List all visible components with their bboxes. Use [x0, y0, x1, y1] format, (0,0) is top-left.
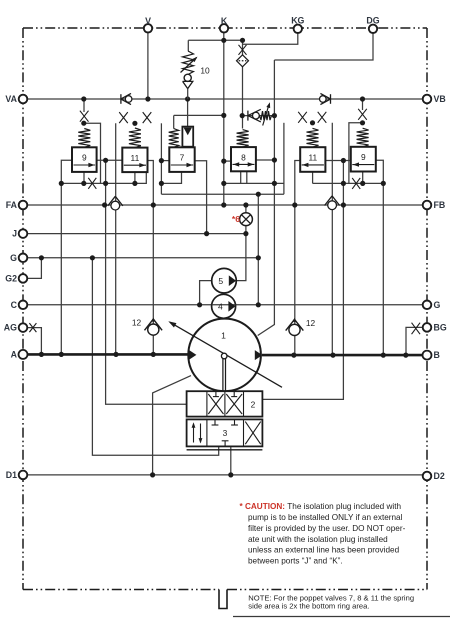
wire valve11R-9R link: [325, 160, 350, 162]
wire valve9L bottom stub: [83, 172, 85, 184]
svg-text:A: A: [11, 349, 18, 359]
svg-text:4: 4: [218, 302, 223, 312]
svg-text:8: 8: [241, 152, 246, 162]
wire crossover line 11L-11R: [161, 193, 284, 195]
svg-text:* CAUTION: The isolation plug: * CAUTION: The isolation plug included w…: [240, 502, 402, 511]
wire drain to control valve: [92, 258, 218, 455]
orifice below valve 9 right: [352, 178, 360, 189]
wire valve11L right frame: [160, 123, 162, 194]
port FB: [423, 201, 432, 210]
svg-text:3: 3: [223, 428, 228, 438]
wire valve7 drain elbow: [161, 172, 181, 183]
svg-text:D1: D1: [6, 470, 17, 480]
wire valve7 spring to K line: [173, 115, 175, 128]
pump shaft: [222, 358, 224, 392]
check valve on VA line: [125, 96, 132, 103]
svg-text:1: 1: [221, 331, 226, 341]
svg-text:between ports “J” and “K”.: between ports “J” and “K”.: [248, 557, 343, 566]
wire valve10 top line: [188, 39, 242, 41]
wire valve11R left frame: [283, 123, 285, 194]
svg-text:5: 5: [218, 276, 223, 286]
port C: [19, 301, 28, 310]
orifice at BG: [412, 323, 421, 335]
check valve on VB line: [320, 96, 327, 103]
wire VA-VB line: [27, 98, 422, 100]
svg-text:G: G: [434, 300, 441, 310]
svg-text:unless an external line has be: unless an external line has been provide…: [248, 546, 400, 555]
svg-text:G: G: [10, 253, 17, 263]
wire isolation plug branch FA-J: [245, 205, 247, 234]
poppet valve 9 left: [80, 111, 89, 122]
svg-text:J: J: [12, 229, 17, 239]
variable displacement arrow: [170, 322, 282, 387]
svg-text:FA: FA: [6, 200, 18, 210]
orifice below valve 9 left: [88, 178, 96, 189]
svg-text:FB: FB: [434, 200, 446, 210]
svg-text:KG: KG: [291, 16, 304, 26]
wire DG drop elbow: [274, 33, 373, 60]
gerotor 5: [212, 268, 237, 293]
wire control box drain stub to D line: [230, 446, 232, 475]
poppet valve 11 left: [119, 112, 128, 123]
port VA: [19, 95, 28, 104]
svg-text:*6: *6: [232, 214, 240, 224]
poppet valve 11 right: [298, 112, 307, 123]
enclosure dash-dot border: [23, 27, 427, 29]
wire servo right feed: [262, 161, 343, 400]
port G2: [19, 274, 28, 283]
bypass check valve with spring: [247, 111, 249, 121]
pump inlet arrow: [189, 350, 197, 360]
orifice at AG: [29, 323, 36, 332]
junction dots: [81, 96, 86, 101]
svg-text:DG: DG: [366, 16, 379, 26]
isolation plug *6: [240, 213, 253, 226]
port D2: [423, 472, 432, 481]
wire valve9R pilot side branch: [349, 123, 363, 184]
svg-text:pump is to be installed ONLY i: pump is to be installed ONLY if an exter…: [248, 513, 403, 522]
wire gerotor5 right elbow to J: [236, 234, 246, 281]
svg-text:B: B: [434, 350, 440, 360]
svg-text:AG: AG: [4, 323, 17, 333]
wire D1-D2 line: [27, 474, 422, 476]
port FA: [19, 201, 28, 210]
wire valve7 left stub: [161, 160, 169, 162]
svg-text:ate unit with the isolation pl: ate unit with the isolation plug install…: [248, 535, 388, 544]
svg-text:side area is 2x the bottom rin: side area is 2x the bottom ring area.: [248, 602, 369, 611]
svg-text:V: V: [145, 16, 151, 26]
port D1: [19, 471, 28, 480]
filter 6: [237, 55, 249, 67]
wire swash link and case drain to D1: [153, 376, 191, 475]
svg-text:9: 9: [82, 153, 87, 163]
svg-text:K: K: [221, 16, 228, 26]
wire valve7 pilot drop: [187, 99, 189, 128]
wire valve9L-11L link: [97, 159, 123, 161]
wire drain bus right segment: [313, 182, 384, 184]
check valve 12 right: [289, 324, 300, 335]
svg-text:C: C: [11, 300, 18, 310]
svg-text:2: 2: [251, 399, 256, 409]
wire J line: [27, 233, 246, 235]
wire valve11L bottom stub: [134, 172, 136, 183]
svg-text:10: 10: [200, 66, 210, 76]
port AG: [19, 323, 28, 332]
wire valve9R bottom stub: [362, 172, 364, 184]
wire drain bus left segment: [61, 172, 146, 183]
wire V drop: [147, 33, 149, 99]
wire filter branch: [242, 40, 244, 128]
wire servo left feed: [106, 160, 187, 404]
relief valve 10: [187, 40, 189, 51]
check valve on FA line: [111, 201, 120, 210]
servo cylinder 2: [187, 391, 263, 416]
wire port A thick line: [27, 353, 189, 356]
wire valve9L left stub: [61, 160, 72, 354]
wire valve11R bottom stub: [312, 172, 314, 184]
check valve 12 left: [148, 324, 159, 335]
port J: [19, 229, 28, 238]
wire G line: [27, 257, 258, 259]
wire bypass check line: [242, 115, 275, 117]
wire K to valve7 spring pilot line: [174, 114, 224, 116]
wire crossover drop to C: [257, 194, 259, 305]
port VB: [423, 95, 432, 104]
wire valve11L right stub down to FA and A: [148, 161, 154, 355]
wire valve11L left frame to A: [115, 123, 117, 354]
wire valve8 bottom stubs: [240, 171, 242, 183]
port BG: [423, 323, 432, 332]
tank notch at bottom border: [219, 590, 227, 609]
port DG: [369, 25, 377, 33]
main pump 1: [188, 319, 261, 392]
wire valve9L pilot side branch: [84, 123, 101, 183]
port KG: [294, 25, 302, 33]
poppet valve 7 with pilot: [169, 129, 179, 148]
svg-text:VA: VA: [5, 94, 17, 104]
wire port B thick line: [262, 354, 422, 357]
wire FA-FB line: [27, 204, 422, 206]
wire drain bus center segment: [224, 182, 284, 184]
wire valve8 right stub: [256, 159, 275, 161]
wire G2 elbow: [27, 258, 41, 279]
check valve on FB line: [328, 201, 337, 210]
svg-text:7: 7: [180, 153, 185, 163]
svg-text:D2: D2: [434, 471, 445, 481]
wire AG elbow: [27, 328, 41, 355]
footer rule: [233, 616, 450, 618]
wire KG drop elbow: [243, 33, 298, 44]
poppet valve 9 right: [358, 109, 367, 120]
wire valve11R right frame through FB check to B: [331, 123, 333, 355]
port B: [423, 351, 432, 360]
wire K drop: [223, 33, 225, 205]
poppet valve 8: [237, 130, 249, 148]
svg-text:VB: VB: [434, 94, 446, 104]
orifice above filter: [239, 45, 247, 55]
wire C-G line: [27, 304, 422, 306]
wire valve9L pilot drop: [83, 99, 85, 112]
svg-text:BG: BG: [434, 322, 447, 332]
svg-text:12: 12: [132, 318, 142, 328]
wire valve8 left stub: [224, 160, 231, 162]
wire BG elbow: [406, 327, 422, 355]
port V: [144, 24, 152, 32]
svg-text:11: 11: [308, 152, 317, 162]
port G right: [423, 301, 432, 310]
wire valve9R pilot drop: [362, 99, 364, 110]
svg-text:11: 11: [131, 153, 140, 163]
pump outlet arrow: [255, 350, 263, 360]
charge pump 4: [212, 294, 236, 318]
svg-text:filter is provided by the user: filter is provided by the user. DO NOT o…: [248, 524, 406, 533]
port G left: [19, 253, 28, 262]
wire gerotor5 left elbow to C: [200, 281, 212, 305]
wire valve9R right stub to B: [376, 160, 384, 355]
wire valve7 right stub to J: [195, 161, 207, 234]
port A: [19, 350, 28, 359]
svg-text:G2: G2: [5, 273, 17, 283]
control valve 3: [187, 419, 263, 446]
wire valve11R left stub down to FB and B: [295, 161, 300, 356]
port K: [220, 24, 228, 32]
wire DG bus to pump: [258, 60, 275, 336]
svg-text:9: 9: [361, 152, 366, 162]
svg-text:12: 12: [306, 318, 316, 328]
